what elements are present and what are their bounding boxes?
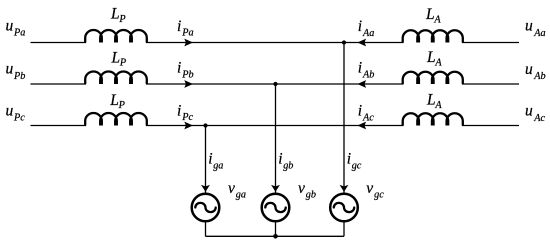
bottom node dot (273, 234, 278, 239)
inductor L_A phase a (403, 30, 463, 42)
source v_gb (262, 194, 290, 222)
current arrow i_Pc (184, 122, 193, 130)
down arrow i_gc (340, 185, 349, 192)
node dot row c at x=205.5 (203, 123, 207, 127)
bottom bus wire (206, 235, 345, 237)
stub below v_gb (275, 221, 277, 236)
current arrow i_Aa (357, 39, 366, 47)
node dot row a at x=344 (342, 40, 346, 44)
inductor L_P phase c (85, 113, 147, 126)
source v_gc (330, 194, 358, 222)
wire row c left segment (31, 125, 87, 127)
wire vertical branch c (row c to source v_ga) (205, 126, 207, 194)
current arrow i_Ab (357, 80, 366, 88)
wire row c right segment (462, 125, 519, 127)
wire row a right segment (462, 42, 519, 44)
node dot row b at x=275.5 (273, 82, 277, 86)
wire row b middle segment (146, 83, 404, 85)
current arrow i_Ac (357, 122, 366, 130)
source v_ga (192, 194, 220, 222)
inductor L_A phase b (403, 72, 463, 84)
wire row a middle segment (146, 42, 404, 44)
current arrow i_Pb (184, 80, 193, 88)
down arrow i_ga (201, 185, 210, 192)
stub below v_ga (205, 221, 207, 236)
down arrow i_gb (271, 185, 280, 192)
wire row a left segment (31, 42, 87, 44)
wire vertical branch a (row a to source v_gc) (343, 43, 345, 194)
wire row b left segment (31, 83, 87, 85)
inductor L_A phase c (403, 113, 463, 125)
stub below v_gc (343, 221, 345, 236)
wire row c middle segment (146, 125, 404, 127)
wire row b right segment (462, 83, 519, 85)
inductor L_P phase a (85, 30, 147, 43)
current arrow i_Pa (184, 39, 193, 47)
inductor L_P phase b (85, 72, 147, 85)
wire vertical branch b (row b to source v_gb) (275, 84, 277, 193)
